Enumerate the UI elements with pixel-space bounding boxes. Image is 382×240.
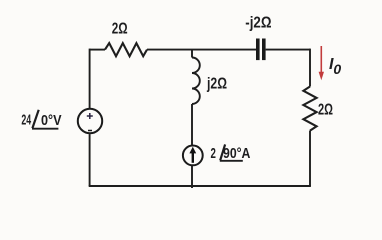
current arrow I0 (red) <box>319 46 324 80</box>
voltage source plus sign <box>87 113 93 119</box>
svg-text:24: 24 <box>21 112 31 128</box>
current source arrow (up) <box>189 147 196 163</box>
svg-text:90°A: 90°A <box>223 146 251 162</box>
inductor j2ohm (coil) <box>192 58 200 105</box>
wire: right branch lower <box>309 131 311 186</box>
wire: top-left horizontal (node A to resistor R1) <box>90 49 105 51</box>
wire: top middle (resistor to capacitor) <box>147 49 256 51</box>
voltage source minus sign <box>88 130 92 132</box>
resistor 2ohm top (zigzag) <box>105 43 147 56</box>
svg-text:-j2Ω: -j2Ω <box>245 15 271 32</box>
label 2 angle 90 A <box>211 144 251 162</box>
svg-text:2Ω: 2Ω <box>112 20 128 37</box>
wire: bottom rail <box>89 185 311 187</box>
svg-text:2Ω: 2Ω <box>318 102 333 119</box>
resistor 2ohm right (vertical zigzag) <box>303 87 316 131</box>
svg-text:0: 0 <box>333 61 341 77</box>
wire: middle stub from top rail <box>191 50 193 58</box>
svg-text:0°V: 0°V <box>41 113 62 129</box>
current source I1 circle <box>183 146 203 166</box>
label 24 angle 0 V <box>21 110 61 129</box>
wire: top right (capacitor to right corner) <box>266 49 310 51</box>
wire: left branch lower <box>89 134 91 186</box>
capacitor -j2ohm plates <box>256 39 266 61</box>
svg-text:j2Ω: j2Ω <box>206 76 227 93</box>
wire: right branch upper <box>309 49 311 87</box>
wire: left branch upper <box>89 49 91 108</box>
voltage source V1 circle <box>78 109 102 133</box>
label I0 <box>329 56 341 77</box>
wire: stub below current source <box>191 166 193 188</box>
wire: middle between inductor and current source <box>191 104 193 145</box>
svg-text:2: 2 <box>211 146 216 162</box>
